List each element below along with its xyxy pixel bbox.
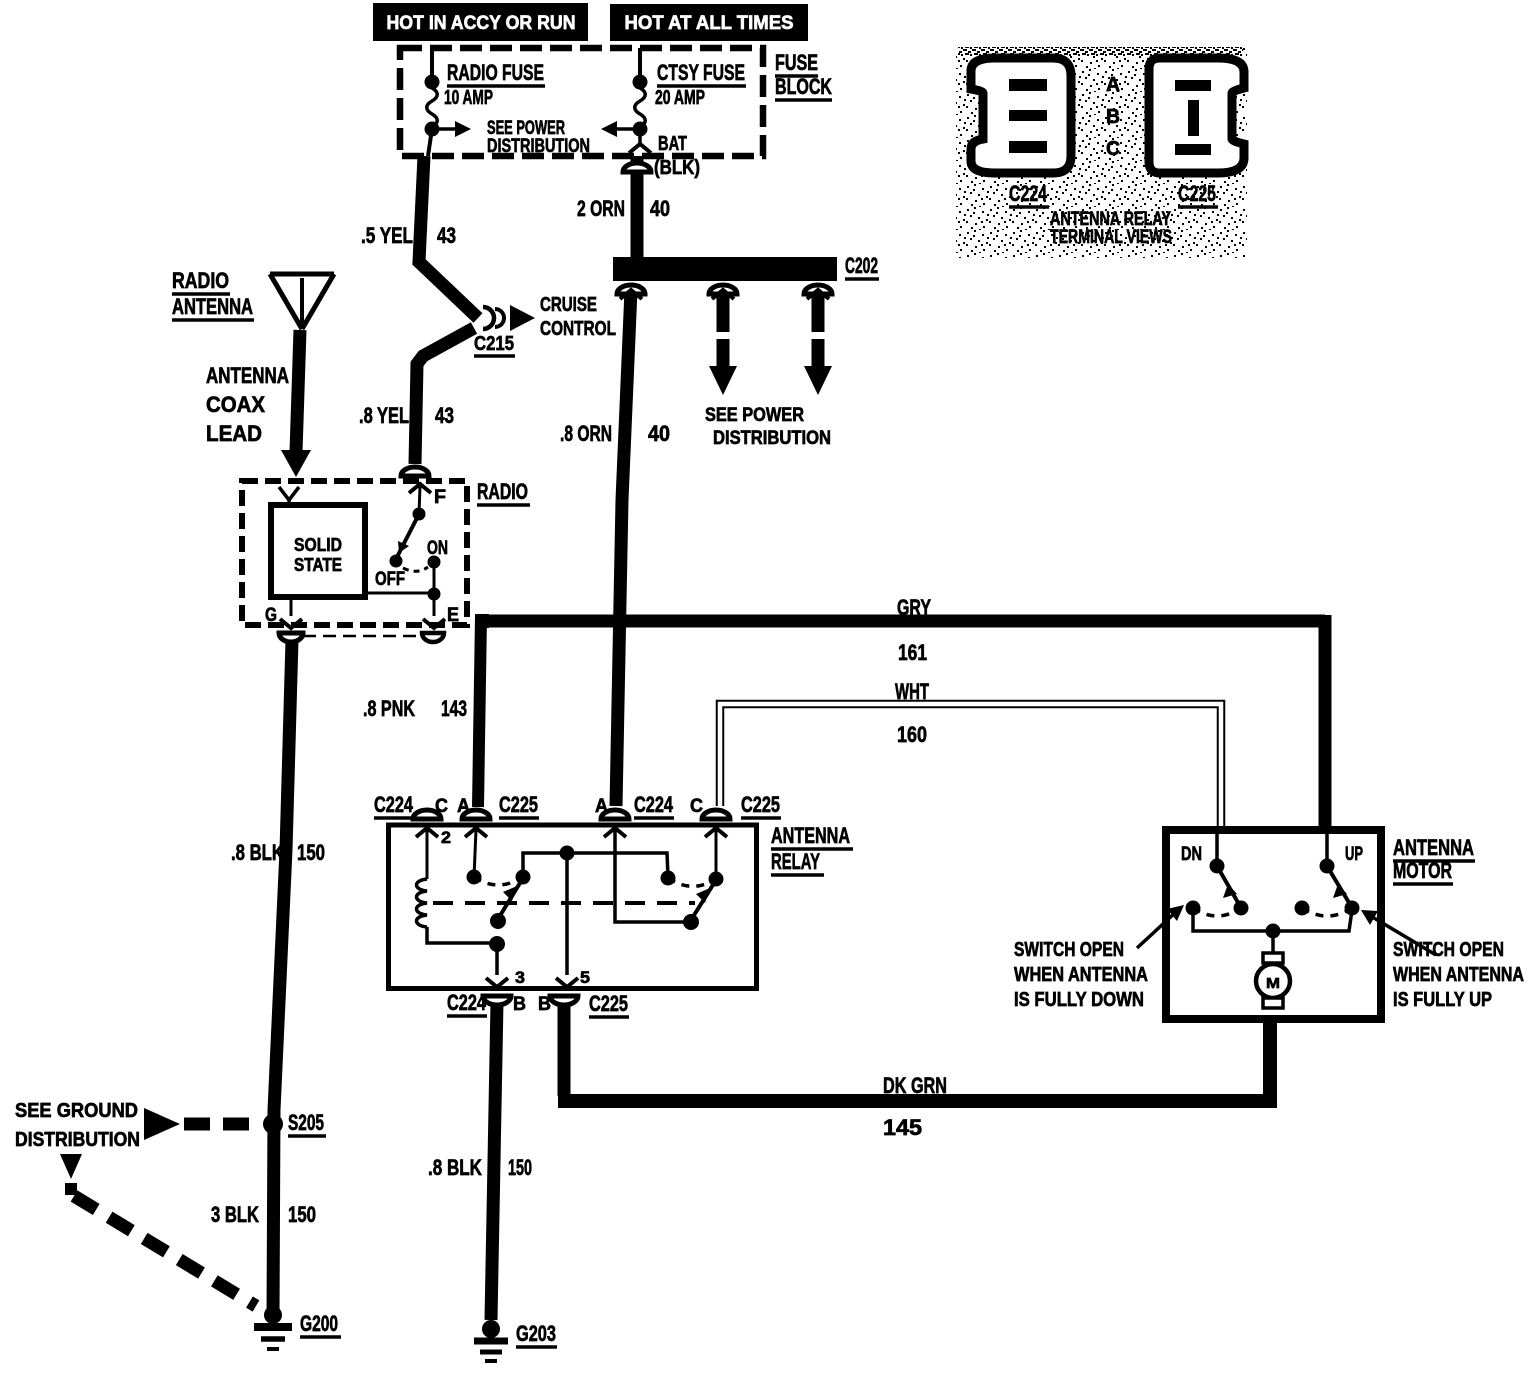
svg-text:A: A — [595, 796, 608, 817]
svg-text:A: A — [1106, 74, 1120, 96]
svg-text:C: C — [690, 796, 703, 817]
svg-text:TERMINAL VIEWS: TERMINAL VIEWS — [1050, 227, 1172, 248]
svg-text:G200: G200 — [300, 1311, 338, 1336]
svg-text:BAT: BAT — [658, 133, 687, 155]
svg-text:C225: C225 — [741, 792, 780, 817]
svg-text:WHEN ANTENNA: WHEN ANTENNA — [1014, 964, 1148, 986]
svg-text:CTSY FUSE: CTSY FUSE — [657, 60, 745, 85]
svg-text:IS FULLY DOWN: IS FULLY DOWN — [1014, 989, 1144, 1011]
svg-text:10 AMP: 10 AMP — [444, 87, 493, 109]
svg-text:160: 160 — [897, 722, 927, 747]
svg-text:RELAY: RELAY — [771, 849, 820, 874]
svg-text:HOT AT ALL TIMES: HOT AT ALL TIMES — [625, 13, 794, 34]
svg-text:.5 YEL: .5 YEL — [361, 223, 413, 248]
svg-text:C: C — [435, 796, 448, 817]
svg-text:GRY: GRY — [897, 595, 931, 620]
svg-text:43: 43 — [437, 223, 456, 248]
svg-text:CONTROL: CONTROL — [540, 318, 616, 340]
svg-text:.8 BLK: .8 BLK — [231, 840, 284, 865]
svg-text:SOLID: SOLID — [294, 535, 342, 555]
svg-text:SWITCH OPEN: SWITCH OPEN — [1393, 939, 1504, 961]
svg-text:S205: S205 — [288, 1110, 324, 1135]
svg-text:.8 PNK: .8 PNK — [363, 696, 415, 721]
svg-text:M: M — [1266, 975, 1280, 992]
svg-text:IS FULLY UP: IS FULLY UP — [1393, 989, 1492, 1011]
svg-text:DK GRN: DK GRN — [883, 1073, 947, 1098]
svg-text:WHT: WHT — [895, 679, 929, 704]
svg-text:CRUISE: CRUISE — [540, 294, 597, 316]
svg-text:C: C — [1106, 138, 1120, 160]
svg-text:COAX: COAX — [206, 392, 265, 417]
svg-text:40: 40 — [650, 196, 670, 221]
svg-text:C202: C202 — [845, 253, 878, 278]
svg-text:OFF: OFF — [375, 569, 405, 590]
svg-text:SEE POWER: SEE POWER — [705, 405, 804, 426]
svg-text:C224: C224 — [447, 990, 487, 1015]
svg-text:145: 145 — [883, 1115, 922, 1140]
svg-text:2: 2 — [441, 828, 451, 847]
svg-text:DN: DN — [1181, 844, 1202, 865]
svg-text:DISTRIBUTION: DISTRIBUTION — [487, 136, 590, 157]
svg-text:G: G — [265, 605, 277, 626]
svg-text:UP: UP — [1345, 844, 1363, 865]
svg-text:.8 BLK: .8 BLK — [428, 1155, 482, 1180]
svg-text:C224: C224 — [1009, 181, 1048, 206]
svg-text:ANTENNA: ANTENNA — [172, 294, 253, 319]
svg-text:C224: C224 — [374, 792, 414, 817]
svg-text:RADIO: RADIO — [172, 268, 229, 293]
svg-text:DISTRIBUTION: DISTRIBUTION — [713, 428, 831, 449]
svg-text:C215: C215 — [474, 333, 514, 355]
svg-text:2 ORN: 2 ORN — [577, 196, 625, 221]
svg-text:WHEN ANTENNA: WHEN ANTENNA — [1393, 964, 1524, 986]
svg-text:C225: C225 — [1178, 181, 1216, 206]
svg-text:LEAD: LEAD — [206, 421, 262, 446]
svg-text:B: B — [513, 994, 526, 1015]
svg-text:RADIO: RADIO — [477, 479, 528, 504]
svg-text:FUSE: FUSE — [775, 50, 818, 75]
svg-text:ON: ON — [427, 538, 448, 559]
svg-text:5: 5 — [580, 968, 590, 987]
svg-text:BLOCK: BLOCK — [775, 74, 832, 99]
svg-text:STATE: STATE — [294, 555, 342, 575]
svg-text:DISTRIBUTION: DISTRIBUTION — [15, 1129, 140, 1151]
svg-text:HOT IN ACCY OR RUN: HOT IN ACCY OR RUN — [387, 13, 576, 34]
svg-text:SWITCH OPEN: SWITCH OPEN — [1014, 939, 1124, 961]
svg-text:143: 143 — [441, 696, 467, 721]
svg-text:ANTENNA: ANTENNA — [771, 823, 850, 848]
svg-text:20 AMP: 20 AMP — [655, 87, 705, 109]
svg-text:40: 40 — [648, 421, 670, 446]
svg-text:ANTENNA: ANTENNA — [206, 363, 289, 388]
svg-text:F: F — [434, 487, 446, 508]
svg-text:G203: G203 — [516, 1321, 556, 1346]
svg-text:RADIO FUSE: RADIO FUSE — [447, 60, 544, 85]
svg-text:MOTOR: MOTOR — [1393, 858, 1452, 883]
svg-text:150: 150 — [288, 1202, 316, 1227]
svg-text:SEE GROUND: SEE GROUND — [15, 1100, 138, 1122]
svg-text:E: E — [447, 605, 459, 626]
svg-text:43: 43 — [435, 403, 454, 428]
svg-text:.8 YEL: .8 YEL — [359, 403, 409, 428]
svg-text:3: 3 — [515, 968, 525, 987]
svg-text:C225: C225 — [499, 792, 538, 817]
svg-text:150: 150 — [297, 840, 325, 865]
svg-text:150: 150 — [508, 1155, 532, 1180]
svg-text:B: B — [1106, 106, 1120, 128]
svg-text:C224: C224 — [634, 792, 674, 817]
svg-text:C225: C225 — [589, 991, 628, 1016]
svg-text:3 BLK: 3 BLK — [211, 1202, 259, 1227]
svg-text:A: A — [457, 796, 470, 817]
svg-text:B: B — [538, 994, 551, 1015]
svg-text:(BLK): (BLK) — [654, 157, 700, 179]
svg-text:161: 161 — [898, 640, 927, 665]
svg-text:ANTENNA: ANTENNA — [1393, 835, 1474, 860]
svg-text:.8 ORN: .8 ORN — [560, 421, 612, 446]
